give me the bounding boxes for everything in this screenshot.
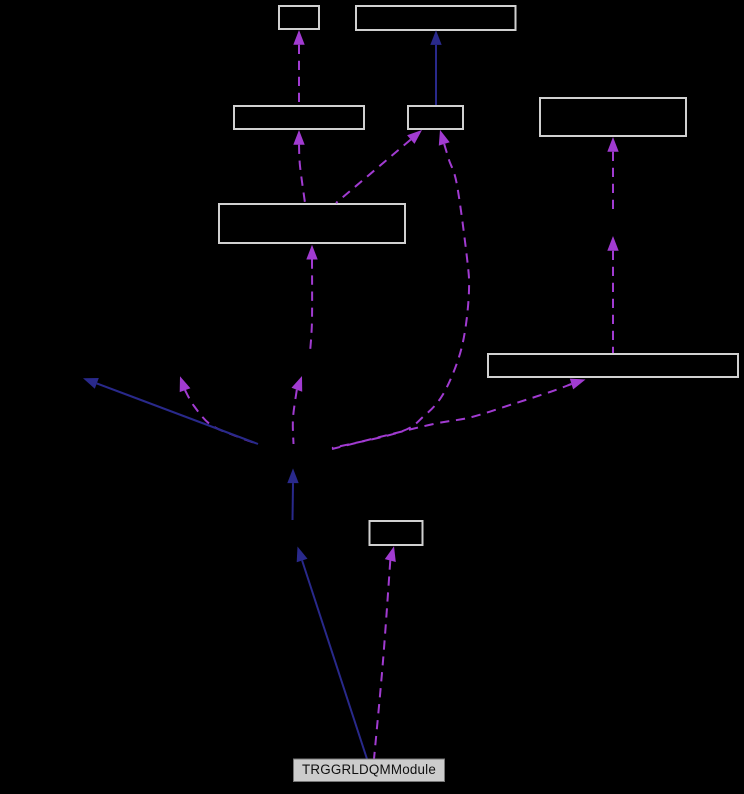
wire edge R2a to R1a (dashed usage) <box>293 30 304 105</box>
wire edge R3a to R2b (dashed usage diagonal) <box>336 130 422 203</box>
node box R1a (top small) <box>279 6 319 29</box>
wire edge R2b to R1b (solid inheritance) <box>430 30 441 105</box>
node box R2a (row2 left) <box>234 106 364 129</box>
wire edge n3R to R2c (dashed usage) <box>607 137 618 210</box>
wire edge n45a to hub (solid inheritance) <box>287 468 298 520</box>
wire edge hub to n35c (dashed usage) <box>292 376 303 444</box>
wire edge hub to n35b (dashed usage curve) <box>180 376 258 444</box>
wire edge hub to n35a (solid inheritance) <box>83 378 258 444</box>
node box R35d (mid-right wide) <box>488 354 738 377</box>
svg-text:TRGGRLDQMModule: TRGGRLDQMModule <box>302 762 436 777</box>
wire edge hub to R2b (long dashed curve) <box>332 130 469 448</box>
wire edge TRGGRLDQMModule to R45b (dashed usage) <box>374 546 396 759</box>
node box R2c (row2 right, 2-line) <box>540 98 686 136</box>
node box R2b (row2 small) <box>408 106 463 129</box>
wire edge TRGGRLDQMModule to n45a (solid inheritance) <box>297 547 367 760</box>
node box R3a (row3, 2-line) <box>219 204 405 243</box>
node box R45b (small lower) <box>370 521 423 545</box>
wire edge R3a to R2a (dashed usage) <box>293 130 305 203</box>
wire edge n35c to R3a (dashed usage) <box>306 245 317 353</box>
wire edge R35d to n3R (dashed usage) <box>607 236 618 353</box>
node TRGGRLDQMModule (current node, grey fill) <box>294 759 445 782</box>
wire edge hub to R35d (dashed usage curve) <box>332 379 586 449</box>
node box R1b (top wide) <box>356 6 516 30</box>
